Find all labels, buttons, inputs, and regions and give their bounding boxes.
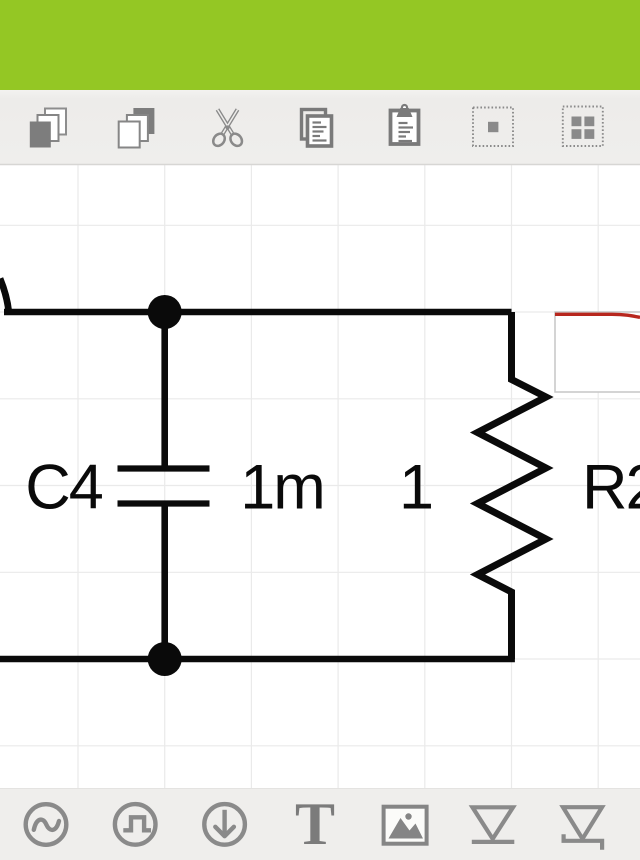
icon: ground symbol xyxy=(472,807,515,842)
capacitor plate top xyxy=(118,465,210,471)
green app header bar xyxy=(0,0,640,90)
svg-text:T: T xyxy=(295,791,335,857)
svg-text:1: 1 xyxy=(399,453,434,523)
top toolbar background xyxy=(0,90,640,164)
icon: select all (dotted box, four squares) xyxy=(563,107,603,147)
icon: select (dotted box, one square) xyxy=(473,108,513,147)
icon: duplicate pages (back filled) xyxy=(119,108,155,148)
wire: capacitor bottom lead xyxy=(161,504,168,660)
capacitor C4 xyxy=(118,312,210,659)
icon: copy document with text xyxy=(302,110,332,147)
junction node bottom xyxy=(148,642,182,676)
top toolbar bottom border xyxy=(0,164,640,166)
icon: pulse source (square wave in circle) xyxy=(115,804,156,845)
icon: scissors cut xyxy=(211,110,245,149)
wire bottom xyxy=(0,656,515,663)
voltage source V1 (arc at left edge) xyxy=(0,279,9,313)
junction node top xyxy=(148,295,182,329)
wire: capacitor top lead xyxy=(161,312,168,469)
wire top xyxy=(4,309,512,316)
bottom toolbar background xyxy=(0,789,640,860)
icon: current source (down arrow in circle) xyxy=(204,804,245,845)
icon: AC source (sine in circle) xyxy=(26,804,67,845)
icon: image tool xyxy=(384,807,427,844)
svg-text:C4: C4 xyxy=(25,453,102,523)
icon: paste clipboard xyxy=(391,104,419,144)
svg-text:1m: 1m xyxy=(240,453,324,523)
icon: copy pages (front filled) xyxy=(30,109,66,148)
scope window with red trace xyxy=(555,312,640,392)
capacitor plate bottom xyxy=(118,500,210,506)
icon: chassis ground symbol xyxy=(563,807,602,850)
resistor R2 xyxy=(478,312,547,659)
svg-text:R2: R2 xyxy=(582,453,640,523)
